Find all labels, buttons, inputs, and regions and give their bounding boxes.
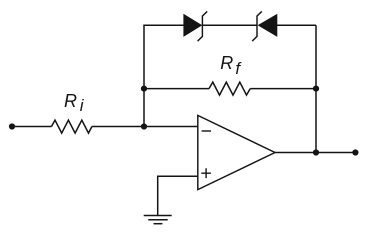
node junction Rf left — [141, 86, 147, 92]
zener diode D1 — [184, 11, 207, 41]
wire output — [275, 152, 355, 154]
wire input lead — [12, 126, 52, 128]
op-amp inverting input label - — [202, 130, 211, 132]
wire between diodes — [202, 24, 257, 26]
op-amp non-inverting input label + — [201, 168, 211, 178]
node output terminal — [352, 149, 358, 155]
op-amp U1 — [198, 115, 275, 189]
node junction Rf right — [313, 86, 319, 92]
svg-text:i: i — [80, 96, 85, 115]
node input terminal — [9, 123, 15, 129]
svg-text:R: R — [220, 53, 233, 73]
zener diode D2 — [252, 11, 277, 41]
wire Ri to inverting input — [92, 126, 198, 128]
wire Rf left lead — [144, 88, 209, 90]
resistor Ri — [52, 120, 92, 133]
svg-text:f: f — [235, 59, 242, 78]
node junction Ri/feedback — [141, 123, 147, 129]
wire non-inverting input to ground — [158, 176, 198, 215]
resistor Rf — [209, 82, 250, 95]
wire left vertical branch and top-left segment — [144, 25, 184, 126]
label Ri — [64, 91, 85, 115]
svg-text:R: R — [64, 91, 77, 111]
wire Rf right lead — [250, 88, 316, 90]
node junction output/feedback — [313, 149, 319, 155]
ground — [144, 216, 172, 224]
label Rf — [220, 53, 242, 78]
wire top-right segment and right vertical branch — [277, 25, 316, 152]
